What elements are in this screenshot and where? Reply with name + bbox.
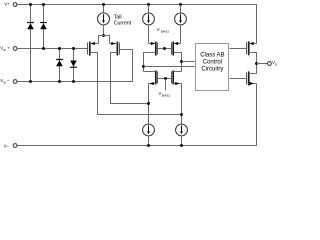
terminal VIN- xyxy=(13,80,17,84)
current source IB2 left xyxy=(143,124,155,136)
junction IB2R-V- xyxy=(180,144,183,147)
wire Q4 gate lead xyxy=(165,48,172,50)
wire right node to box xyxy=(182,61,196,63)
terminal V+ xyxy=(13,3,17,7)
diode D1 xyxy=(27,23,34,30)
wire Q1 source arm xyxy=(90,43,99,45)
node left cascode xyxy=(142,65,145,68)
wire box to Q7 gate xyxy=(230,48,247,50)
wire Q7 drain arm xyxy=(249,53,257,64)
wire left node to box xyxy=(144,66,196,68)
wire Q6 drain arm xyxy=(174,71,182,73)
junction D2-V+ xyxy=(42,3,45,6)
wire diode D3 branch xyxy=(59,49,61,82)
wire Q5 gate lead xyxy=(158,78,166,80)
wire diode D4 branch xyxy=(73,49,75,82)
current source IBIAS1 left xyxy=(143,13,155,25)
wire Q2 drain route xyxy=(111,53,149,104)
wire Q5 source drop xyxy=(148,84,150,125)
wire IB1R to Q4 xyxy=(180,25,182,44)
transistor Q7 xyxy=(247,41,249,55)
wire Q6 source drop xyxy=(181,84,183,125)
wire Q4 source arm xyxy=(174,43,181,45)
node right cascode xyxy=(180,60,183,63)
junction D4-VIN+ xyxy=(72,47,75,50)
junction D3-VIN+ xyxy=(58,47,61,50)
wire VIN+ rail xyxy=(18,48,88,50)
wire diode D2 branch xyxy=(43,5,45,49)
junction Q5-IB2L xyxy=(147,102,150,105)
diode D2 xyxy=(40,23,47,30)
arrow Q6 source xyxy=(175,82,179,85)
wire Q6 source arm xyxy=(174,83,182,85)
wire Q8 drain arm xyxy=(249,64,257,74)
arrow Q2 source xyxy=(111,42,115,45)
wire box to Q8 gate xyxy=(230,78,247,80)
junction tail-V+ xyxy=(102,3,105,6)
svg-text:Class AB: Class AB xyxy=(200,53,224,59)
arrow Q4 source xyxy=(174,42,178,45)
wire output xyxy=(257,63,268,65)
wire Q5 source arm xyxy=(149,83,156,85)
junction D4-VIN- xyxy=(72,80,75,83)
wire Q2 source arm xyxy=(110,43,118,45)
current source tail xyxy=(98,13,110,25)
wire V- rail xyxy=(18,84,257,146)
wire IB2L to V- xyxy=(148,136,150,146)
transistor Q2 xyxy=(117,42,119,56)
wire Q3 drain route xyxy=(144,53,156,72)
junction D1-V+ xyxy=(29,3,32,6)
wire Q3 gate lead xyxy=(158,48,165,50)
junction D1-VIN- xyxy=(29,80,32,83)
node lower gates xyxy=(164,77,167,80)
diode D4 xyxy=(70,61,77,68)
current source IBIAS1 right xyxy=(175,13,187,25)
svg-text:Current: Current xyxy=(114,21,132,27)
node upper gates xyxy=(163,47,166,50)
wire IB1R drop xyxy=(180,5,182,14)
terminal VO xyxy=(268,62,272,66)
svg-text:Control: Control xyxy=(203,60,222,66)
wire V+ rail xyxy=(18,5,257,44)
transistor Q4 xyxy=(172,42,174,56)
wire VIN- rail to Q2 gate xyxy=(18,50,133,82)
transistor Q6 xyxy=(172,70,174,84)
junction IB2L-V- xyxy=(147,144,150,147)
node tail xyxy=(102,34,105,37)
arrow Q5 source xyxy=(150,82,154,85)
terminal VIN+ xyxy=(13,47,17,51)
svg-text:V+: V+ xyxy=(4,1,10,6)
wire tail bar xyxy=(99,36,110,44)
wire Q8 source arm xyxy=(249,83,257,85)
arrow Q8 source xyxy=(250,82,254,85)
svg-text:V–: V– xyxy=(4,143,10,148)
wire Q4 drain route xyxy=(174,53,182,72)
svg-text:Circuitry: Circuitry xyxy=(201,66,223,72)
transistor Q5 xyxy=(156,70,158,84)
transistor Q8 xyxy=(247,71,249,85)
junction Q6-IB2R xyxy=(180,113,183,116)
arrow Q7 source xyxy=(250,42,254,45)
wire Q1 drain route xyxy=(90,53,182,115)
arrow Q3 source xyxy=(151,42,155,45)
wire IB2R to V- xyxy=(181,136,183,146)
junction D3-VIN- xyxy=(58,80,61,83)
wire diode D1 branch xyxy=(30,5,32,82)
junction IB1L-V+ xyxy=(147,3,150,6)
wire tail drop xyxy=(103,5,105,13)
wire IB1L drop xyxy=(148,5,150,14)
arrow Q1 source xyxy=(91,42,95,45)
junction D2-VIN+ xyxy=(42,47,45,50)
transistor Q3 xyxy=(156,42,158,56)
wire Q5 drain arm xyxy=(144,71,156,73)
transistor Q1 xyxy=(88,42,90,56)
wire Q7 source arm xyxy=(249,43,257,45)
wire VBIAS2 stub xyxy=(165,79,167,91)
block class AB control xyxy=(196,44,229,91)
wire tail to pair xyxy=(103,25,105,36)
junction IB1R-V+ xyxy=(179,3,182,6)
wire Q6 gate lead xyxy=(166,78,172,80)
wire IB1L to Q3 xyxy=(148,25,150,44)
current source IB2 right xyxy=(176,124,188,136)
node output xyxy=(255,62,258,65)
terminal V- xyxy=(13,144,17,148)
diode D3 xyxy=(56,60,63,67)
wire Q3 source arm xyxy=(149,43,156,45)
